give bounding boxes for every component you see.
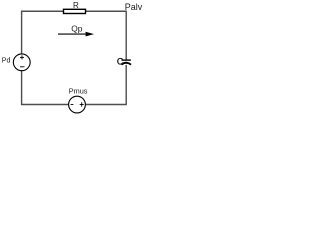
minus sign of Pmus xyxy=(71,104,74,106)
plus sign of Pd xyxy=(20,56,24,58)
plus sign of Pmus xyxy=(80,104,84,106)
wire bottom-left: Pmus to bottom-left corner and up to Pd xyxy=(22,71,69,105)
capacitor C bottom curved plate xyxy=(121,63,131,65)
source Pd xyxy=(13,54,30,71)
svg-text:Pmus: Pmus xyxy=(69,87,88,96)
svg-text:Qp: Qp xyxy=(71,23,83,33)
svg-text:R: R xyxy=(73,1,79,10)
wire top-left: left vertical upper + top horizontal to resistor xyxy=(22,11,63,53)
svg-text:Palv: Palv xyxy=(125,2,143,12)
wire top-right: resistor to top-right corner and down to capacitor xyxy=(86,11,126,60)
arrowhead Qp xyxy=(86,32,94,37)
wire right-bottom: capacitor to bottom-right corner and left to Pmus xyxy=(86,65,126,105)
minus sign of Pd xyxy=(20,66,25,68)
svg-text:Pd: Pd xyxy=(2,57,11,64)
wire: Qp flow arrow shaft xyxy=(58,33,87,35)
source Pmus xyxy=(69,96,86,113)
svg-text:C: C xyxy=(117,56,124,66)
resistor R xyxy=(64,9,86,13)
capacitor C top plate xyxy=(122,59,131,61)
